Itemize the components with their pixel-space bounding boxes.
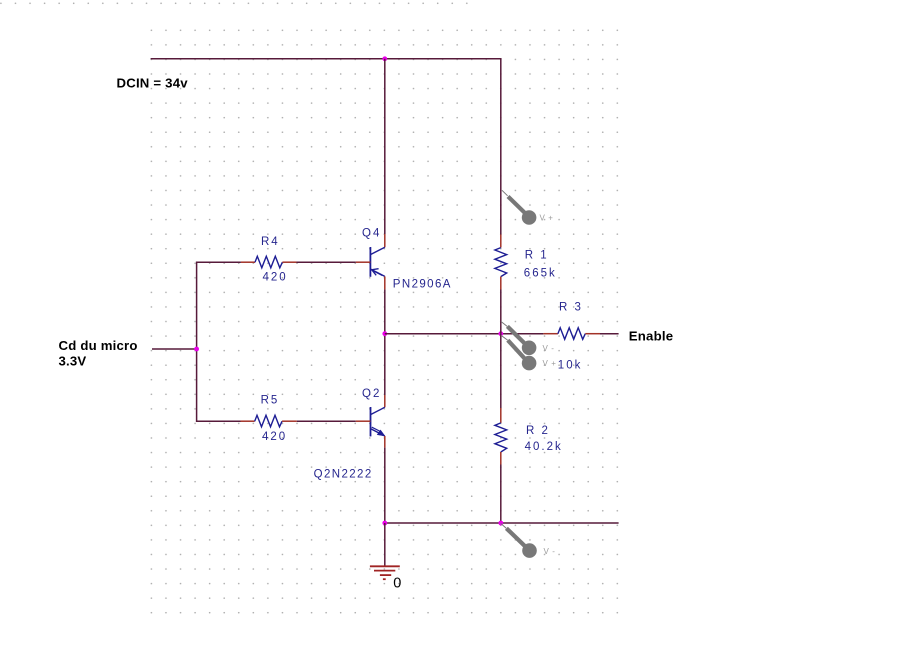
- probe V+ top: [502, 190, 554, 225]
- probe V+ mid: [501, 335, 557, 370]
- Q4 base bar: [369, 247, 371, 277]
- svg-text:Cd du micro: Cd du micro: [59, 338, 138, 353]
- Q2 emitter arrow (points out): [377, 430, 384, 436]
- Q4 emitter pin: [384, 276, 386, 289]
- node junction input: [194, 347, 199, 352]
- svg-text:V +: V +: [543, 359, 557, 368]
- wire mid horizontal to R3: [385, 333, 544, 335]
- R1 pin 1: [500, 235, 502, 248]
- Q2 base bar: [370, 407, 372, 436]
- wire left rail: [197, 262, 241, 421]
- R4 pin 1: [241, 261, 255, 263]
- R2 body: [495, 423, 507, 452]
- svg-text:DCIN = 34v: DCIN = 34v: [117, 76, 189, 91]
- R4 body: [255, 256, 282, 268]
- svg-text:420: 420: [262, 431, 287, 443]
- node junction bottom left: [382, 521, 387, 526]
- R2 pin 1: [500, 408, 502, 423]
- ground: [370, 566, 400, 579]
- Q2 collector diagonal: [371, 407, 385, 414]
- svg-text:Q2: Q2: [362, 388, 381, 400]
- R3 pin 1: [543, 333, 558, 335]
- wire to ground: [384, 523, 386, 566]
- Q4 emitter arrow (points into base): [372, 269, 379, 276]
- transistor Q4 PNP: [356, 234, 385, 289]
- svg-text:10k: 10k: [558, 360, 583, 372]
- wire R3 to Enable: [600, 333, 619, 335]
- svg-text:3.3V: 3.3V: [59, 354, 87, 369]
- Q4 collector pin: [384, 234, 386, 247]
- svg-text:R 1: R 1: [525, 250, 549, 262]
- Q2 emitter diagonal: [371, 429, 385, 436]
- node junction bottom right: [498, 521, 503, 526]
- wire top rail DCIN: [151, 59, 501, 235]
- node junction top center: [382, 56, 387, 61]
- R3 body: [558, 328, 585, 340]
- R5 pin 2: [282, 420, 297, 422]
- Q2 emitter pin: [384, 436, 386, 448]
- resistor R4: [241, 256, 297, 268]
- R3 pin 2: [585, 333, 600, 335]
- R2 pin 2: [500, 452, 502, 465]
- Q2 emitter second stroke: [372, 427, 380, 431]
- R4 pin 2: [282, 261, 296, 263]
- svg-text:R 3: R 3: [559, 302, 583, 314]
- wire R4 to Q4 base: [297, 261, 356, 263]
- wire center rail upper: [384, 59, 386, 234]
- wire input Cd du micro: [152, 348, 197, 350]
- svg-text:R5: R5: [261, 395, 280, 407]
- svg-text:V -: V -: [544, 547, 556, 556]
- R1 body: [495, 248, 507, 277]
- wire bottom rail: [385, 522, 619, 524]
- node junction mid right: [498, 331, 503, 336]
- resistor R5: [241, 415, 297, 427]
- svg-text:PN2906A: PN2906A: [393, 279, 452, 291]
- svg-text:R 2: R 2: [526, 425, 550, 437]
- Q4 emitter diagonal: [370, 269, 384, 276]
- wire center rail mid: [384, 289, 386, 395]
- svg-text:R4: R4: [261, 236, 280, 248]
- svg-text:420: 420: [263, 272, 288, 284]
- probe V- mid: [501, 322, 555, 356]
- probe V- bottom: [501, 523, 556, 557]
- resistor R2: [495, 408, 507, 465]
- wire R5 to Q2 base: [297, 420, 356, 422]
- wire right rail to R2: [500, 334, 502, 408]
- node junction center mid: [382, 331, 387, 336]
- R1 pin 2: [500, 277, 502, 290]
- svg-text:Q2N2222: Q2N2222: [314, 469, 373, 481]
- Q2 base pin: [356, 420, 371, 422]
- resistor R1: [495, 235, 507, 290]
- svg-text:Enable: Enable: [629, 329, 673, 344]
- wire center rail lower: [384, 448, 386, 523]
- svg-text:V +: V +: [540, 214, 554, 223]
- wire right rail mid: [500, 290, 502, 334]
- wire right rail lower: [500, 465, 502, 524]
- svg-text:0: 0: [393, 576, 401, 592]
- Q4 collector diagonal: [370, 247, 384, 254]
- svg-text:Q4: Q4: [362, 228, 381, 240]
- Q4 base pin: [356, 261, 371, 263]
- R5 body: [255, 415, 282, 427]
- transistor Q2 NPN: [356, 395, 385, 448]
- svg-text:V -: V -: [543, 344, 555, 353]
- svg-text:40.2k: 40.2k: [525, 441, 563, 453]
- Q2 collector pin: [384, 395, 386, 407]
- resistor R3: [543, 328, 600, 340]
- svg-text:665k: 665k: [524, 268, 557, 280]
- R5 pin 1: [241, 420, 255, 422]
